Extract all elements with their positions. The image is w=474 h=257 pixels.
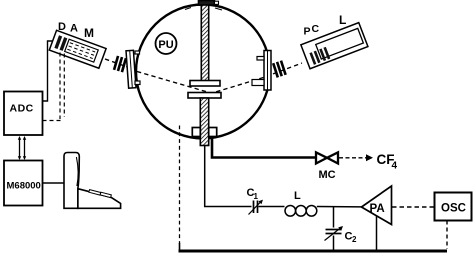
svg-text:PU: PU [158, 39, 173, 51]
svg-text:2: 2 [352, 235, 357, 244]
svg-text:ADC: ADC [10, 103, 34, 115]
svg-text:MC: MC [319, 169, 336, 181]
svg-text:OSC: OSC [441, 203, 466, 215]
svg-text:4: 4 [392, 161, 398, 172]
svg-text:L: L [339, 13, 346, 27]
svg-text:C: C [312, 23, 320, 35]
svg-text:P: P [304, 26, 311, 38]
svg-text:A: A [70, 23, 78, 35]
svg-text:1: 1 [254, 192, 259, 201]
svg-text:D: D [58, 21, 66, 33]
svg-text:M68000: M68000 [7, 181, 41, 192]
svg-text:M: M [84, 26, 94, 40]
svg-text:L: L [294, 190, 301, 202]
svg-text:PA: PA [370, 203, 385, 215]
